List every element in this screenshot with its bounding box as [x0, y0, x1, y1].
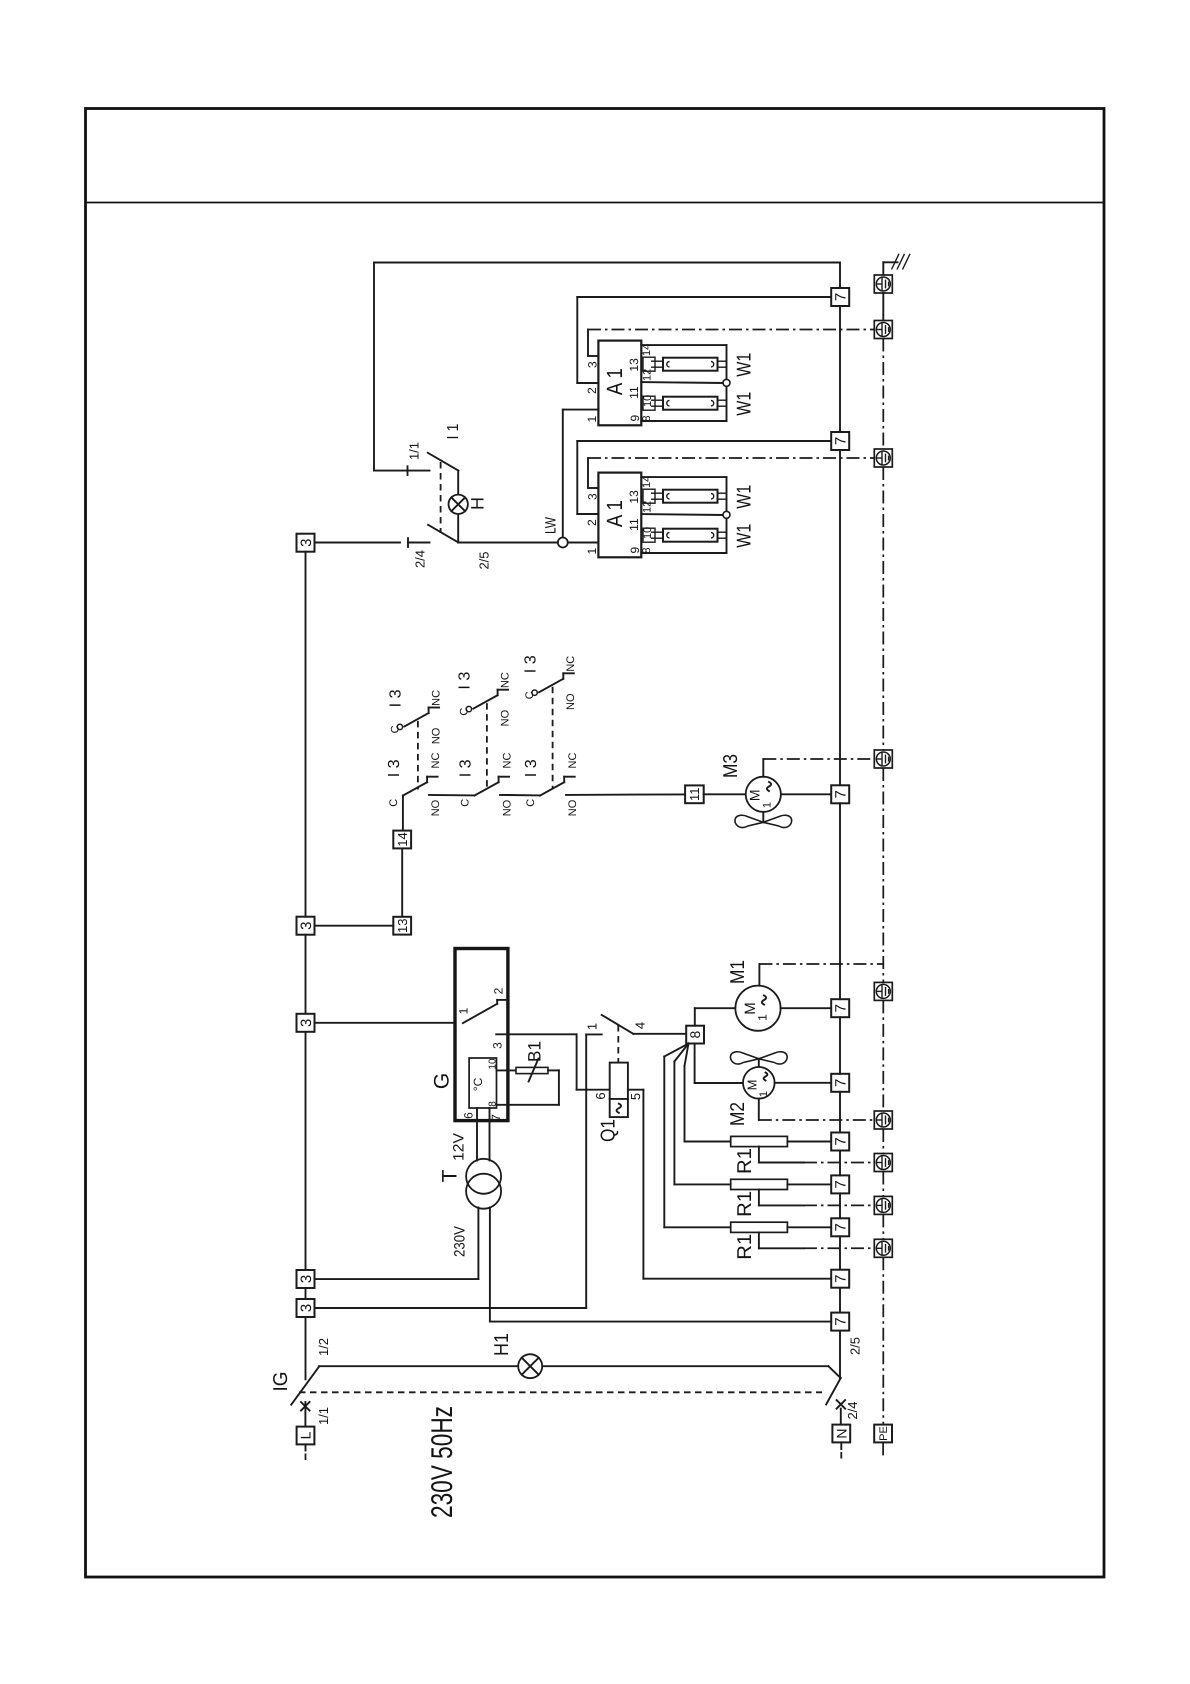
stem M3 fan [762, 812, 764, 822]
svg-text:°C: °C [471, 1077, 485, 1091]
wire: transformer primary to terminal 7 [489, 1208, 491, 1322]
svg-text:R1: R1 [734, 1148, 756, 1174]
chassis earth symbol [883, 254, 910, 275]
wire: B1 back to G pin 8 [548, 1069, 559, 1071]
wire: terminal 3 to controller G pin 1 [315, 1022, 463, 1024]
svg-text:PE: PE [878, 1426, 890, 1441]
svg-text:3: 3 [585, 493, 599, 500]
svg-text:LW: LW [542, 516, 559, 534]
terminal 3 (to switch I1) [297, 534, 315, 552]
svg-text:T: T [439, 1169, 462, 1182]
svg-text:M3: M3 [720, 754, 742, 778]
svg-text:1: 1 [761, 802, 773, 808]
svg-text:C: C [525, 799, 537, 807]
svg-text:NO: NO [565, 693, 577, 710]
stub below N [840, 1442, 842, 1449]
motor M3 [746, 777, 781, 812]
svg-text:M1: M1 [727, 960, 749, 984]
svg-text:7: 7 [833, 293, 850, 301]
svg-text:I 3: I 3 [522, 655, 539, 673]
internal switch of G (pins 1-2) [463, 1000, 507, 1023]
svg-text:B1: B1 [524, 1041, 544, 1062]
terminal 7 (transformer branch) [831, 1313, 849, 1331]
svg-text:1: 1 [585, 415, 599, 422]
svg-text:1: 1 [585, 547, 599, 554]
mechanical link I3 column 2 [486, 703, 488, 789]
svg-text:H1: H1 [491, 1333, 513, 1356]
switch I3 pole B3 [540, 777, 575, 796]
svg-text:NC: NC [430, 753, 442, 769]
actuator X mark (N pole) [837, 1400, 846, 1409]
terminal 7 (ballast lower) [831, 432, 849, 450]
pilot lamp H [449, 495, 468, 514]
wire: A1 upper pin3 to PE bus [588, 355, 598, 357]
wire: A1 upper pin2 to terminal 7 [577, 382, 598, 384]
svg-text:C: C [388, 799, 400, 807]
stub below L [305, 1444, 307, 1450]
svg-text:4: 4 [633, 1022, 648, 1029]
temperature module inside G [469, 1058, 498, 1108]
svg-text:7: 7 [833, 790, 850, 798]
PE wire M2 (dash-dot) [758, 1099, 760, 1120]
svg-text:W1: W1 [734, 524, 756, 548]
svg-text:7: 7 [833, 1180, 850, 1188]
wire: stub to I1 contact 1/1 with connector tick [374, 470, 430, 472]
page border frame [86, 109, 1105, 1578]
heater resistor R1 #1 [731, 1136, 788, 1146]
electronic ballast A1 (upper) [598, 341, 641, 426]
fanned wires from terminal 8 to heaters R1 [664, 1044, 688, 1057]
svg-text:NC: NC [501, 753, 513, 769]
svg-text:7: 7 [489, 1114, 503, 1121]
svg-text:3: 3 [298, 1304, 315, 1312]
transformer T [466, 1159, 501, 1209]
svg-text:M: M [742, 1002, 759, 1015]
svg-text:1: 1 [456, 1007, 470, 1014]
PE rail segment [882, 293, 884, 321]
stub below PE [882, 1442, 884, 1458]
svg-text:NO: NO [499, 709, 511, 726]
pilot lamp H1 [518, 1354, 542, 1378]
svg-text:I 3: I 3 [388, 689, 405, 707]
heater resistor R1 #2 [731, 1179, 788, 1189]
switch I3 pole A2 (spare) [466, 690, 508, 712]
PE earth terminal R1 #3 [874, 1239, 892, 1257]
svg-text:1/1: 1/1 [316, 1407, 331, 1425]
terminal 7 (M2) [831, 1074, 849, 1092]
electronic ballast A1 (lower) [598, 473, 641, 558]
svg-text:11: 11 [687, 788, 702, 802]
terminal 7 (R1 #3) [831, 1218, 849, 1236]
jumper wires between I3 poles [429, 794, 474, 797]
wire: terminal 3 to I1 contact [315, 542, 401, 544]
PE wire M3 (dash-dot) [762, 759, 764, 777]
main switch IG pole 1/1-1/2 [291, 1367, 319, 1405]
svg-text:1: 1 [755, 1014, 769, 1021]
PE earth terminal top [874, 275, 892, 293]
PE earth terminal M3 [874, 750, 892, 768]
svg-text:10: 10 [488, 1058, 499, 1070]
svg-text:1: 1 [585, 1023, 600, 1030]
mechanical link I3 column 1 [417, 721, 419, 790]
fluorescent tube W1 (lower #2) [643, 528, 727, 542]
svg-text:H: H [467, 497, 487, 510]
svg-text:W1: W1 [734, 485, 756, 509]
wires: G pins 6,7 down to transformer [476, 1108, 478, 1161]
actuator X mark (L pole) [301, 1402, 310, 1411]
svg-text:2/5: 2/5 [848, 1337, 863, 1355]
svg-text:9: 9 [628, 546, 642, 553]
fluorescent tube W1 (upper #1) [643, 357, 727, 371]
PE tap R1 #2 [758, 1190, 760, 1206]
svg-text:N: N [833, 1428, 849, 1438]
wire: fixed contact 1 of Q1 switch down to terminal 3 row [586, 1033, 602, 1035]
A1 upper lamp loop wiring [641, 345, 726, 421]
PE bus (dash-dot) lower ballast [588, 457, 874, 459]
svg-text:8: 8 [488, 1101, 499, 1107]
PE tap R1 #1 [758, 1147, 760, 1163]
terminal 7 (ballast upper) [831, 288, 849, 306]
svg-text:13: 13 [627, 358, 641, 372]
fluorescent tube W1 (lower #1) [643, 489, 727, 503]
svg-text:L: L [298, 1431, 314, 1439]
svg-text:1: 1 [758, 1091, 770, 1097]
svg-text:A 1: A 1 [602, 500, 627, 527]
switch I1 (rotary, with pilot lamp) [428, 453, 459, 543]
wire: lamp switch to LW and A1 lower pin1 [458, 542, 558, 544]
svg-text:13: 13 [395, 918, 410, 932]
sensor B1 (thermistor) [516, 1059, 548, 1082]
A1 lower lamp loop wiring [641, 477, 726, 553]
wire: terminal 3 to Q1 contact 1 [315, 1307, 587, 1309]
controller G outline [455, 949, 508, 1121]
svg-text:NO: NO [430, 727, 442, 744]
svg-text:2: 2 [585, 387, 599, 394]
svg-text:6: 6 [461, 1112, 475, 1119]
svg-text:11: 11 [627, 518, 641, 531]
terminal 3 (to 13) [297, 917, 315, 935]
wire with pilot lamp H1 [319, 1365, 519, 1367]
svg-text:C: C [389, 725, 401, 733]
svg-text:M: M [747, 789, 763, 801]
svg-text:2/5: 2/5 [477, 551, 492, 569]
svg-text:13: 13 [627, 490, 641, 504]
PE earth terminal M2 [874, 1111, 892, 1129]
svg-text:M: M [745, 1080, 760, 1091]
svg-text:8: 8 [687, 1030, 703, 1038]
svg-text:M2: M2 [727, 1102, 749, 1126]
motor M2 [743, 1067, 775, 1099]
terminal N [832, 1425, 850, 1443]
wire: Q1 pin5 to terminal 7 [628, 1089, 644, 1091]
svg-text:I 3: I 3 [386, 759, 403, 777]
svg-text:NC: NC [567, 753, 579, 769]
svg-text:R1: R1 [734, 1234, 756, 1260]
wire: R1 #2 to terminal 7 [787, 1183, 831, 1185]
svg-text:2: 2 [491, 987, 505, 994]
wire: A1 upper pin1 to node LW [563, 409, 599, 411]
wire: lamp feed from I1 up and across to terminal 7 [373, 263, 375, 471]
terminal 7 (R1 #2) [831, 1175, 849, 1193]
wire: I3 to terminal 11 [566, 793, 685, 796]
terminal 7 (R1 #1) [831, 1133, 849, 1151]
motor M1 [735, 986, 780, 1031]
svg-text:6: 6 [593, 1092, 608, 1099]
wire: contact 4 to terminal 8 [633, 1033, 686, 1035]
svg-text:230V 50Hz: 230V 50Hz [426, 1406, 459, 1518]
PE bus (dash-dot) upper ballast [588, 329, 874, 331]
svg-text:NO: NO [567, 799, 579, 816]
fluorescent tube W1 (upper #2) [643, 396, 727, 410]
svg-text:5: 5 [628, 1093, 643, 1100]
wire: G pin10 to sensor B1 [497, 1069, 517, 1071]
mechanical link I3 column 3 [552, 687, 554, 790]
PE rail segment [882, 339, 884, 450]
PE earth terminal ballast lower [874, 449, 892, 467]
PE rail segment [882, 1000, 884, 1111]
PE earth terminal M1 [874, 982, 892, 1000]
fan blades M2 [730, 1052, 787, 1064]
wire: R1 #3 to terminal 7 [787, 1226, 831, 1228]
fan blades M3 [735, 815, 792, 827]
svg-text:7: 7 [833, 1137, 850, 1145]
svg-text:I 3: I 3 [457, 672, 474, 690]
switch I3 pole A1 (spare) [397, 708, 439, 730]
svg-text:3: 3 [298, 1275, 315, 1283]
svg-text:230V: 230V [451, 1226, 468, 1257]
svg-text:3: 3 [490, 1042, 504, 1049]
svg-text:3: 3 [298, 922, 315, 930]
Q1 actuated contact 1-4 [602, 1015, 634, 1034]
svg-text:2/4: 2/4 [413, 550, 428, 568]
pressure switch Q1 body [610, 1063, 628, 1118]
svg-text:C: C [458, 708, 470, 716]
wire: M1 to terminal 7 [781, 1007, 832, 1009]
switch I3 pole A3 (spare) [532, 673, 574, 695]
wire: M2 to terminal 7 [775, 1082, 832, 1084]
svg-text:NC: NC [499, 672, 511, 688]
svg-text:C: C [459, 799, 471, 807]
svg-text:9: 9 [628, 414, 642, 421]
wire: I3 common down to terminal 14 [402, 796, 404, 831]
left supply rail [305, 552, 307, 917]
svg-text:14: 14 [395, 832, 410, 846]
svg-text:2: 2 [585, 519, 599, 526]
PE earth terminal R1 #2 [874, 1196, 892, 1214]
stem M2 fan [758, 1059, 760, 1067]
terminal 14 [393, 831, 411, 849]
svg-text:I 3: I 3 [458, 759, 475, 777]
svg-text:7: 7 [833, 1079, 850, 1087]
wire: X to terminal L [304, 1402, 306, 1427]
svg-text:I 1: I 1 [445, 423, 462, 439]
terminal 7 (M1) [831, 999, 849, 1017]
wire: G pin 3 to pressure switch Q1 pin 6 [496, 1033, 576, 1035]
terminal 8 [686, 1026, 704, 1044]
node on A1 lower lamp loop [723, 511, 730, 518]
svg-text:3: 3 [298, 1019, 315, 1027]
svg-text:1/1: 1/1 [407, 442, 422, 460]
wire: A1 lower pin3 to PE bus [588, 487, 598, 489]
terminal 3 (transformer) [297, 1270, 315, 1288]
svg-text:7: 7 [833, 1317, 850, 1325]
svg-text:NC: NC [565, 656, 577, 672]
node LW [558, 538, 568, 548]
node on A1 upper lamp loop [723, 379, 730, 386]
svg-text:Q1: Q1 [598, 1119, 620, 1142]
svg-text:NC: NC [430, 690, 442, 706]
wire: A1 lower pin2 to terminal 7 [577, 513, 598, 515]
switch I3 pole B2 [474, 777, 509, 796]
svg-text:R1: R1 [734, 1191, 756, 1217]
wire: terminal 8 down to motor M2 [694, 1044, 696, 1084]
supply rail segments (right side) [839, 803, 841, 999]
svg-text:W1: W1 [734, 392, 756, 416]
PE earth terminal R1 #1 [874, 1154, 892, 1172]
svg-text:G: G [431, 1073, 454, 1089]
wire: terminal 14 to terminal 13 [401, 848, 403, 916]
svg-text:NO: NO [430, 799, 442, 816]
svg-text:12V: 12V [450, 1133, 467, 1161]
terminal 3 (to controller G) [297, 1014, 315, 1032]
PE tap R1 #3 [758, 1232, 760, 1248]
PE rail segment [882, 768, 884, 982]
svg-text:W1: W1 [734, 353, 756, 377]
supply rail between terminals [839, 306, 841, 432]
main switch IG pole 2/5-2/4 [826, 1366, 841, 1404]
svg-text:11: 11 [627, 386, 641, 399]
wire: R1 #1 to terminal 7 [787, 1141, 831, 1143]
terminal 11 [685, 785, 704, 803]
terminal L [297, 1427, 315, 1445]
svg-text:C: C [524, 691, 536, 699]
switch I3 pole B1 [403, 777, 438, 796]
heater resistor R1 #3 [731, 1222, 788, 1232]
terminal 3 (Q1 branch) [297, 1299, 315, 1317]
svg-text:2/4: 2/4 [845, 1401, 860, 1419]
svg-text:IG: IG [270, 1372, 292, 1392]
PE earth terminal ballast upper [874, 321, 892, 339]
svg-text:7: 7 [833, 1223, 850, 1231]
svg-text:A 1: A 1 [602, 368, 627, 395]
mechanical link Q1 [617, 1025, 619, 1063]
wire: M3 to terminal 7 [781, 793, 831, 795]
svg-text:7: 7 [833, 1275, 850, 1283]
svg-text:NO: NO [501, 799, 513, 816]
svg-text:I 3: I 3 [523, 759, 540, 777]
svg-text:3: 3 [298, 539, 315, 547]
wire: transformer primary to terminal 3 [477, 1208, 479, 1280]
terminal PE [874, 1425, 892, 1443]
terminal 7 (Q1 branch) [831, 1270, 849, 1288]
PE rail segments in heater area [882, 1129, 884, 1154]
svg-text:3: 3 [585, 361, 599, 368]
svg-text:7: 7 [833, 437, 850, 445]
PE wire M1 (dash-dot) [758, 964, 760, 986]
wire: terminal 3 to terminal 13 [315, 925, 394, 927]
svg-text:1/2: 1/2 [316, 1338, 331, 1356]
mechanical link IG (dashed) [299, 1391, 822, 1393]
wire: X to terminal N [840, 1409, 842, 1425]
terminal 13 [393, 917, 411, 935]
svg-text:7: 7 [833, 1004, 850, 1012]
terminal 7 (M3) [831, 785, 849, 803]
wire: terminal 11 to motor M3 [704, 793, 746, 795]
header divider [86, 202, 1105, 204]
PE rail segment [882, 467, 884, 750]
wire: terminal 8 up to motor M1 [694, 1008, 696, 1025]
